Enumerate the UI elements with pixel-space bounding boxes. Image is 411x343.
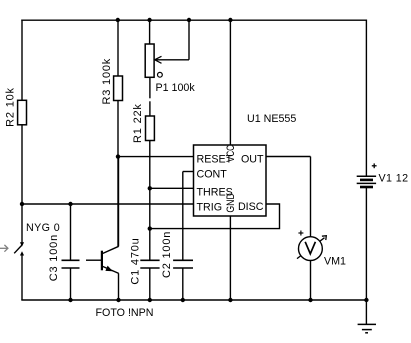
svg-text:U1 NE555: U1 NE555 (247, 113, 296, 125)
capacitor C3 (62, 260, 80, 268)
svg-text:C1 470u: C1 470u (129, 237, 141, 284)
svg-text:OUT: OUT (241, 153, 264, 165)
node bottom C2 (181, 298, 185, 302)
wire P1 to R1 lower (149, 101, 151, 116)
wire R3 column top (117, 20, 119, 76)
svg-text:NYG 0: NYG 0 (26, 222, 60, 234)
svg-text:DISC: DISC (238, 201, 264, 213)
wire DISC loop (150, 204, 280, 229)
node bottom battery (364, 298, 368, 302)
wire R3 column bottom to collector (117, 100, 119, 246)
wire TRIG line (22, 203, 194, 205)
wire P1 wiper horizontal (154, 59, 189, 61)
switch actuator arrow (0, 245, 8, 252)
wire C3 top lead (70, 204, 72, 260)
node bottom emitter (116, 298, 120, 302)
svg-text:CONT: CONT (197, 168, 228, 180)
wire C1 bottom lead (149, 268, 151, 300)
battery V1 (357, 176, 376, 187)
svg-text:GND: GND (225, 193, 237, 213)
svg-text:V1 12: V1 12 (379, 173, 409, 185)
wire ground lead (365, 300, 367, 324)
wire left rail middle (21, 125, 23, 245)
svg-text:FOTO !NPN: FOTO !NPN (96, 307, 154, 319)
svg-text:VCC: VCC (225, 145, 237, 162)
svg-text:R2 10k: R2 10k (4, 87, 16, 127)
resistor R2 (18, 100, 27, 125)
svg-text:C3 100n: C3 100n (48, 234, 60, 281)
potentiometer P1 (145, 44, 162, 77)
wire CONT to C2 column (182, 172, 184, 260)
node top rail wiper (187, 18, 191, 22)
wire VCC column (229, 20, 231, 145)
svg-text:P1 100k: P1 100k (156, 82, 196, 94)
svg-text:TRIG: TRIG (197, 201, 223, 213)
resistor R1 (146, 116, 155, 141)
voltmeter VM1 (297, 236, 326, 261)
node top rail R3 (116, 18, 120, 22)
wire collector vertical (118, 157, 120, 247)
wire OUT horizontal (266, 156, 311, 158)
wire left rail upper (21, 20, 23, 101)
wire P1 top lead (149, 20, 151, 44)
wire battery top lead (365, 20, 367, 177)
switch NYG (14, 242, 24, 255)
transistor Q1 FOTO (101, 246, 119, 273)
wire RESET line (118, 156, 194, 158)
wire THRES line (150, 187, 194, 189)
wire transistor base stub (86, 259, 101, 261)
svg-text:R1 22k: R1 22k (132, 103, 144, 143)
capacitor C2 (173, 260, 193, 268)
ground (358, 324, 376, 332)
op-amp U1 NE555 box (194, 145, 267, 216)
wire emitter vertical (118, 273, 120, 300)
wire R1 column to C1 (149, 140, 151, 259)
wire P1 to R1 upper (149, 77, 151, 98)
svg-text:C2 100n: C2 100n (161, 231, 173, 278)
wire battery bottom lead (365, 188, 367, 301)
wire GND column (229, 216, 231, 300)
wire CONT stub (183, 171, 194, 173)
wire voltmeter bottom lead (310, 260, 312, 300)
node TRIG C3 (68, 202, 72, 206)
node top rail VCC (228, 18, 232, 22)
node bottom VM1 (308, 298, 312, 302)
node THRES junction (148, 186, 152, 190)
node bottom C3 (68, 298, 72, 302)
wire C2 bottom lead (182, 268, 184, 300)
wire bottom rail (21, 299, 366, 301)
svg-text:R3 100k: R3 100k (101, 58, 113, 105)
battery plus sign (372, 163, 377, 168)
svg-text:VM1: VM1 (324, 256, 346, 268)
node RESET junction (116, 154, 120, 158)
wire P1 wiper vertical (188, 20, 190, 60)
node bottom C1 (148, 298, 152, 302)
node DISC C1 (148, 226, 152, 230)
voltmeter plus sign (298, 231, 303, 236)
wire OUT vertical to voltmeter (310, 157, 312, 237)
node bottom GND (228, 298, 232, 302)
wire left rail lower (21, 254, 23, 300)
wire C3 bottom lead (70, 268, 72, 300)
resistor R3 (114, 76, 123, 101)
node top rail P1 (147, 18, 151, 22)
capacitor C1 (140, 260, 159, 268)
wire top rail (21, 19, 367, 21)
node TRIG left rail (20, 202, 24, 206)
